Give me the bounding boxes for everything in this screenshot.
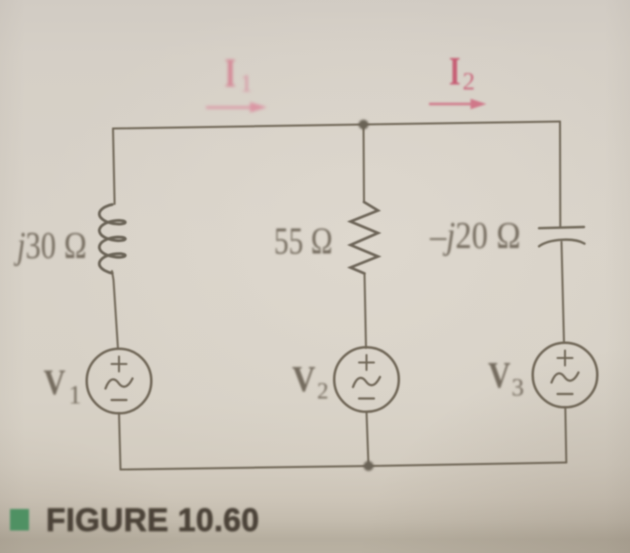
wire right mid — [562, 242, 565, 343]
wire right upper — [559, 122, 561, 228]
arrow I1 — [206, 106, 253, 108]
wire right lower — [565, 407, 566, 463]
V2 sine — [353, 377, 380, 387]
svg-text:I: I — [449, 49, 461, 94]
svg-text:3: 3 — [512, 375, 525, 402]
capacitor -j20 ohm top plate — [539, 227, 584, 228]
source V1 circle — [87, 349, 152, 414]
wire left upper — [113, 129, 115, 205]
wire bottom — [121, 463, 567, 470]
svg-text:FIGURE 10.60: FIGURE 10.60 — [46, 502, 259, 538]
V2 plus — [359, 355, 374, 370]
wire middle lower — [367, 412, 369, 467]
source V3 circle — [533, 343, 598, 408]
source V2 circle — [334, 347, 399, 412]
V3 plus — [558, 351, 573, 366]
svg-text:I: I — [225, 50, 237, 96]
wire middle upper — [363, 125, 366, 203]
svg-text:2: 2 — [463, 69, 476, 96]
wire left lower — [119, 413, 121, 470]
V1 plus — [112, 357, 127, 372]
svg-text:1: 1 — [69, 381, 82, 410]
svg-text:2: 2 — [317, 379, 329, 404]
V3 minus — [558, 393, 573, 395]
svg-text:V: V — [44, 362, 66, 402]
svg-text:1: 1 — [240, 71, 253, 98]
capacitor bottom plate — [539, 240, 585, 247]
svg-text:j30 Ω: j30 Ω — [13, 225, 87, 267]
svg-text:V: V — [292, 360, 316, 401]
wire top — [113, 122, 560, 129]
svg-text:–j20 Ω: –j20 Ω — [429, 215, 521, 257]
inductor j30 ohm — [99, 205, 125, 274]
V1 sine — [106, 379, 133, 389]
V2 minus — [359, 397, 374, 399]
V1 minus — [112, 399, 127, 401]
svg-text:V: V — [488, 355, 511, 396]
V3 sine — [552, 373, 579, 383]
node top junction dot — [359, 120, 369, 130]
svg-text:55 Ω: 55 Ω — [274, 221, 333, 263]
wire middle mid — [365, 274, 367, 349]
arrow I2 — [429, 103, 472, 106]
wire left mid — [112, 271, 118, 349]
node bottom junction dot — [364, 461, 374, 471]
caption square — [10, 509, 29, 531]
resistor 55 ohm — [351, 202, 379, 274]
